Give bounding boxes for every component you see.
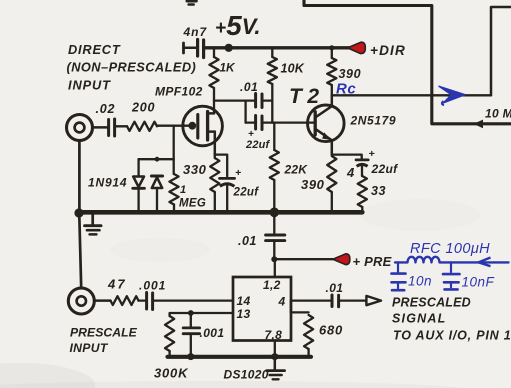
junction dot (22K to bus) [270, 208, 280, 218]
wire to pin 14 [153, 299, 233, 301]
svg-text:.01: .01 [326, 281, 344, 295]
svg-text:RFC 100μH: RFC 100μH [410, 241, 490, 257]
svg-text:.01: .01 [238, 234, 257, 248]
svg-text:680: 680 [319, 323, 343, 338]
svg-text:4: 4 [278, 295, 286, 309]
resistor R 300K [165, 316, 174, 351]
capacitor C .001 (pin 13) [190, 313, 192, 327]
svg-text:300K: 300K [154, 366, 189, 381]
wire pin 13 branch [170, 313, 233, 316]
connector J2 prescale input BNC [68, 288, 94, 314]
resistor R 390 (collector Rc) [329, 45, 334, 50]
svg-text:PRESCALED: PRESCALED [392, 296, 471, 310]
svg-text:DIRECT: DIRECT [68, 42, 121, 57]
resistor R 47 [111, 296, 139, 305]
wire gate line [157, 125, 192, 127]
inductor RFC (blue) [395, 257, 478, 263]
transistor Q2 2N5179 (T2) [308, 95, 345, 154]
wire Rc collector line [332, 94, 491, 96]
svg-text:330: 330 [183, 162, 207, 177]
arrowhead on 10 MHz wire [474, 120, 484, 129]
terminal output (open arrow) [366, 296, 381, 305]
svg-text:7,8: 7,8 [265, 328, 283, 342]
resistor R 10K [271, 48, 273, 57]
svg-text:4: 4 [346, 165, 355, 180]
wire 680 branch [291, 301, 309, 313]
svg-text:10K: 10K [281, 62, 305, 76]
svg-text:10n: 10n [408, 274, 432, 289]
svg-text:390: 390 [301, 177, 325, 192]
svg-text:1K: 1K [220, 61, 237, 75]
capacitor 10nF (blue) [450, 262, 452, 272]
wire joining parallel 22uf cap [244, 101, 246, 123]
capacitor C .01 (bus to PRE) [273, 212, 275, 233]
capacitor 10n (blue) [397, 262, 399, 271]
svg-text:SIGNAL: SIGNAL [392, 312, 446, 326]
svg-text:1,2: 1,2 [263, 278, 281, 292]
resistor R 33 [358, 176, 367, 207]
wire BNC to .02 cap [93, 126, 108, 129]
svg-text:10nF: 10nF [462, 275, 495, 290]
svg-text:10 M: 10 M [485, 107, 511, 121]
svg-text:2N5179: 2N5179 [350, 114, 397, 128]
svg-text:Rc: Rc [336, 81, 356, 98]
wire source to bypass cap [215, 155, 227, 177]
blue arrow on Rc line [439, 86, 465, 103]
capacitor C .001 (input) [139, 299, 146, 301]
wire (top feed from above, to 10 MHz line) [304, 0, 511, 124]
svg-text:MPF102: MPF102 [155, 85, 203, 99]
svg-text:PRESCALE: PRESCALE [70, 326, 138, 340]
svg-text:22uf: 22uf [245, 139, 271, 151]
svg-text:1N914: 1N914 [88, 176, 127, 190]
wire +PRE node [274, 258, 333, 260]
svg-text:TO AUX I/O, PIN 1: TO AUX I/O, PIN 1 [393, 329, 511, 343]
svg-text:390: 390 [339, 67, 362, 81]
junction dot (+5V rail) [225, 44, 233, 52]
diode D2 1N914 (pointing up) [151, 175, 162, 178]
ground bus (thick) [77, 210, 362, 215]
svg-text:22uf: 22uf [371, 162, 399, 176]
resistor R 200 [115, 125, 127, 127]
svg-text:1: 1 [180, 184, 186, 196]
svg-text:INPUT: INPUT [68, 78, 111, 93]
capacitor C 22uf (source bypass, electrolytic) [220, 177, 235, 180]
capacitor C .01 (drain-base coupling) [254, 94, 257, 108]
svg-text:200: 200 [131, 101, 155, 115]
resistor R 330 (source) [210, 158, 219, 192]
ground wire DS1020 (thick) [168, 355, 312, 359]
terminal +PRE (red arrow) [333, 254, 350, 265]
resistor R 1 MEG [169, 174, 178, 205]
+5V supply rail [204, 46, 350, 49]
svg-text:+DIR: +DIR [370, 43, 406, 58]
svg-text:MEG: MEG [179, 198, 206, 210]
wire bus down to prescale BNC [79, 215, 81, 288]
resistor R 680 [304, 315, 313, 349]
ground symbol (DS1020) [274, 357, 277, 370]
svg-text:4n7: 4n7 [183, 25, 208, 39]
capacitor C 22uf (emitter, electrolytic) [356, 159, 368, 162]
capacitor C 22uf (parallel coupling, electrolytic) [246, 121, 255, 123]
svg-text:INPUT: INPUT [70, 341, 109, 355]
junction dot (BNC to bus) [74, 208, 83, 217]
capacitor C .02 [107, 120, 110, 136]
resistor R 22K (base) [273, 123, 275, 150]
wire drain to .01 coupling cap [214, 99, 255, 101]
svg-text:.01: .01 [240, 80, 258, 94]
terminal +DIR (red arrow) [348, 42, 366, 53]
wire BNC shell down to ground bus [78, 141, 81, 211]
svg-text:47: 47 [107, 277, 127, 292]
wire (corner to off-page, top right) [491, 7, 511, 95]
svg-text:33: 33 [371, 184, 386, 198]
svg-text:DS1020: DS1020 [224, 368, 269, 382]
wire BNC to 47 [94, 299, 110, 302]
wire diode top rail [139, 158, 174, 160]
resistor R 1K [213, 48, 215, 57]
diode D1 1N914 (pointing down) [137, 159, 139, 176]
capacitor C 4n7 [182, 43, 185, 53]
svg-text:(NON–PRESCALED): (NON–PRESCALED) [67, 60, 197, 75]
svg-text:+: + [235, 167, 241, 179]
ground symbol (bus) [91, 213, 94, 225]
wire pins 7,8 to ground [274, 341, 276, 357]
svg-text:22K: 22K [284, 163, 309, 177]
connector J1 direct input BNC [67, 115, 93, 141]
svg-text:T2: T2 [289, 85, 325, 108]
junction dot (cap to ground wire) [187, 353, 194, 360]
svg-text:13: 13 [237, 307, 251, 321]
blue arrowhead (pointing left) [479, 258, 491, 267]
wire emitter to 22uf/33 branch [332, 155, 362, 159]
wire base line [272, 121, 315, 123]
svg-text:+ PRE: + PRE [353, 254, 392, 269]
svg-text:.001: .001 [200, 326, 225, 340]
svg-text:+: + [369, 148, 375, 160]
svg-text:22uf: 22uf [233, 187, 260, 199]
svg-text:.02: .02 [96, 102, 116, 116]
wire pin 4 output [291, 299, 331, 301]
capacitor C .01 (output) [331, 295, 334, 307]
IC U1 DS1020 [233, 277, 291, 341]
resistor R 390 (emitter) [327, 156, 336, 192]
transistor Q1 MPF102 (JFET) [183, 106, 223, 154]
wire PRE down to IC pins 1,2 [274, 259, 276, 277]
svg-text:.001: .001 [139, 279, 166, 293]
diode network: wire gate junction down [173, 126, 175, 174]
